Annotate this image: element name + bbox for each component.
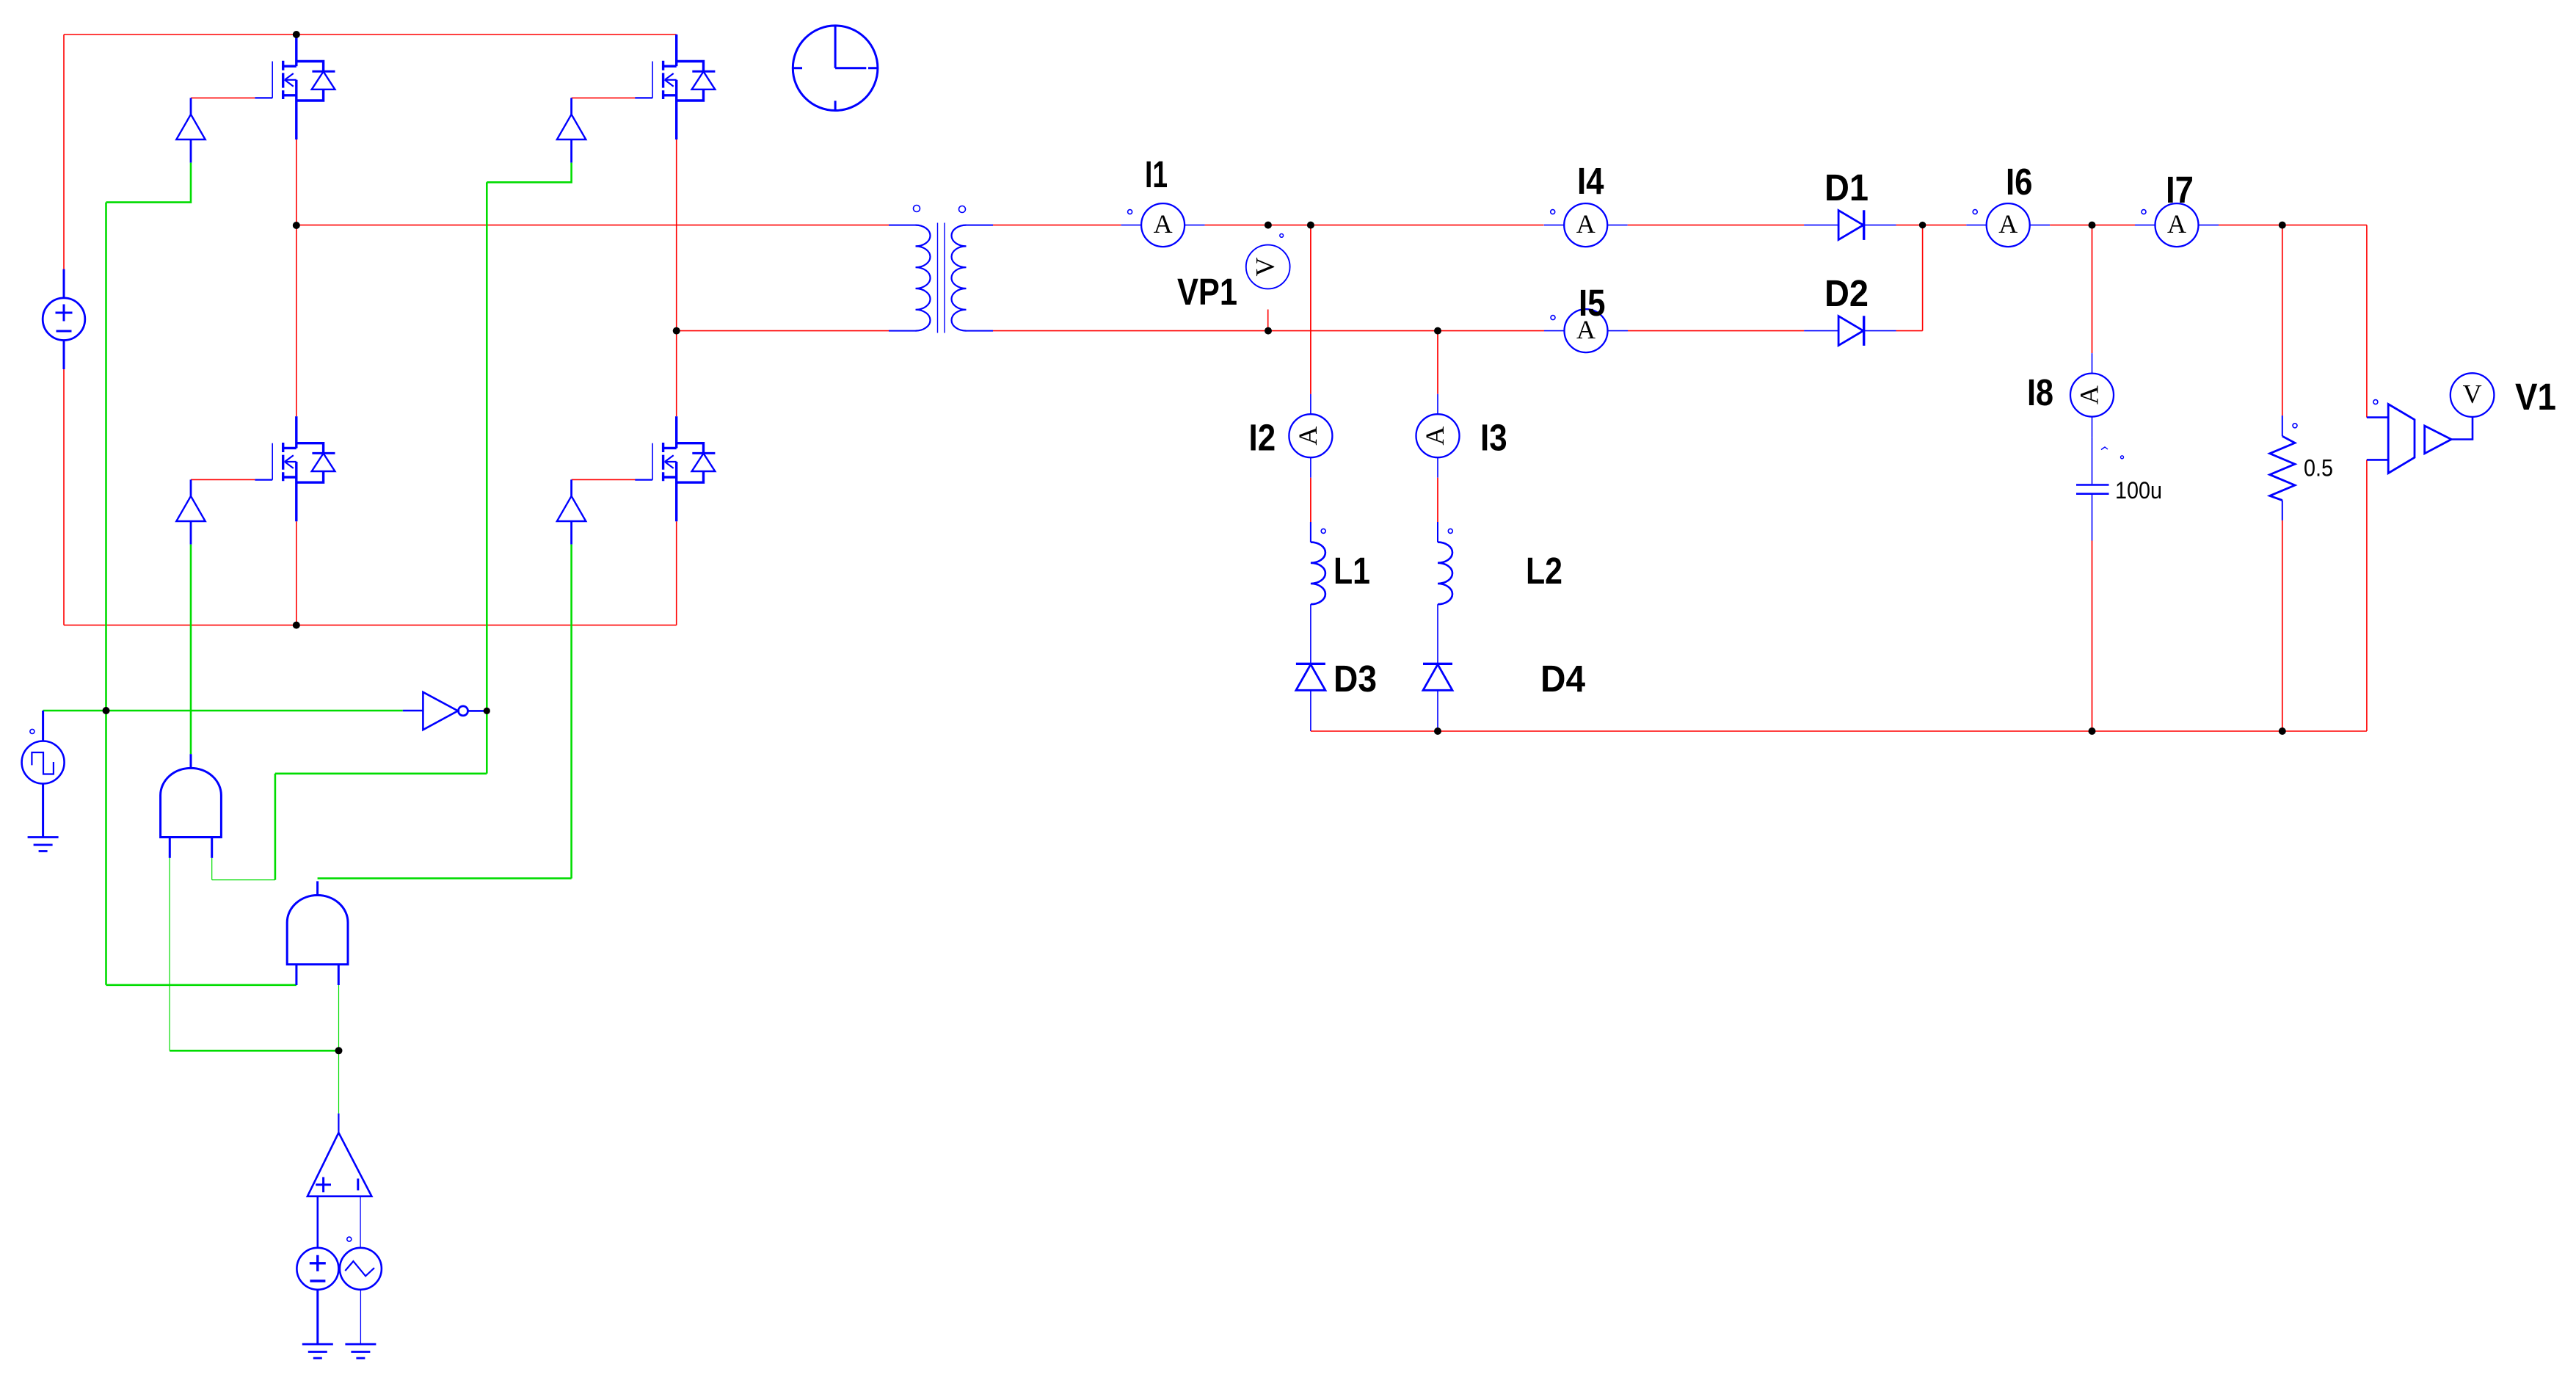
junction resistor branch node G: [2279, 222, 2286, 229]
junction clock node: [103, 707, 110, 714]
svg-text:A: A: [1998, 209, 2017, 239]
junction node B: [673, 327, 680, 335]
wire clock vertical bus: [105, 203, 107, 985]
wire L1 to D3: [1310, 604, 1311, 664]
wire AND2 right input vertical: [338, 985, 340, 1051]
wire U3 buffer output to Q3 gate: [191, 479, 255, 480]
ground GND2: [302, 1344, 333, 1358]
diode D4: [1423, 664, 1452, 690]
wire Q2 source to node B: [676, 139, 677, 331]
wire I1 to node C: [1205, 225, 1544, 226]
svg-text:0.5: 0.5: [2304, 455, 2333, 482]
wire I2 to L1: [1310, 478, 1311, 522]
triangle-wave source V4 (ramp): [340, 1237, 382, 1344]
svg-text:D3: D3: [1334, 658, 1377, 700]
svg-text:100u: 100u: [2115, 477, 2162, 504]
gate driver buffer U4: [557, 479, 586, 544]
ammeter I5: [1544, 309, 1628, 352]
AND gate U6: [161, 754, 222, 858]
diode D3: [1296, 664, 1325, 690]
wire NOT output vertical: [486, 182, 488, 774]
junction capacitor branch node F: [2089, 222, 2096, 229]
wire clock bus to AND2 left input: [106, 984, 296, 987]
svg-text:D2: D2: [1824, 272, 1869, 314]
wire I4 to D1: [1628, 225, 1804, 226]
wire D2 cathode up to node E: [1896, 225, 1923, 331]
junction I2 branch node C: [1307, 222, 1314, 229]
wire Q1 source to node A: [296, 139, 297, 225]
wire NOT output to U2 buffer input: [487, 163, 571, 183]
svg-text:I8: I8: [2027, 371, 2053, 413]
wire left rail upper (V2 to top rail): [63, 35, 65, 269]
capacitor C1 lead top: [2092, 437, 2093, 484]
wire U1 buffer output to Q1 gate: [191, 97, 255, 98]
wire L2 lead top: [1437, 522, 1438, 542]
wire Q3 source to bottom rail: [296, 521, 297, 625]
wire capacitor C1 bottom lead: [2092, 495, 2093, 541]
wire I6 to node F: [2050, 225, 2092, 226]
wire D4 anode to ground rail: [1437, 690, 1438, 731]
voltmeter VP1: [1246, 234, 1290, 289]
gate driver buffer U1: [176, 98, 205, 162]
wire AND2 right input stub: [338, 965, 340, 985]
AND gate U7: [287, 881, 348, 985]
svg-text:I2: I2: [1249, 417, 1276, 459]
comparator U8 (PWM): [308, 1114, 372, 1248]
wire node B to transformer primary bottom: [677, 330, 889, 332]
wire AND1 right input horizontal: [212, 879, 275, 881]
wire comparator output vertical: [338, 1050, 340, 1113]
voltage probe E1 differential: [2367, 400, 2473, 473]
ammeter I1: [1121, 203, 1205, 247]
junction VP1 bottom node: [1265, 327, 1272, 335]
ammeter I6: [1966, 203, 2050, 247]
transistor Q4 (NMOS with body diode): [635, 416, 715, 521]
junction VP1 top node: [1265, 222, 1272, 229]
transistor Q3 (NMOS with body diode): [255, 416, 335, 521]
transformer TX1 core: [938, 223, 945, 333]
wire AND2 output to U4 buffer input: [570, 545, 572, 879]
diode D2: [1804, 316, 1896, 346]
wire L1 lead top: [1310, 522, 1311, 542]
ammeter I7: [2135, 203, 2219, 247]
inductor L1: [1311, 529, 1325, 604]
transformer TX1 secondary phase dot: [959, 206, 966, 213]
wire I3 to L2: [1437, 478, 1438, 522]
inductor L2: [1438, 529, 1452, 604]
wire node D to I3 branch: [1437, 331, 1438, 394]
svg-text:A: A: [2075, 385, 2104, 404]
junction NOT output node: [484, 708, 490, 714]
svg-text:I4: I4: [1577, 160, 1604, 202]
wire NOT output zigzag to AND1 right input: [275, 773, 487, 775]
transformer TX1 primary winding: [889, 225, 931, 331]
wire top rail V2+ to bridge: [64, 34, 677, 35]
wire node F to I7: [2092, 225, 2136, 226]
resistor R1 load: [2270, 415, 2297, 520]
svg-text:L2: L2: [1526, 550, 1562, 592]
wire D3 anode to ground rail: [1310, 690, 1311, 731]
svg-text:VP1: VP1: [1177, 271, 1237, 313]
junction capacitor ground rail: [2089, 727, 2096, 735]
wire VP1 bottom lead: [1267, 310, 1269, 331]
wire L2 to D4: [1437, 604, 1438, 664]
wire node B to Q4 drain: [676, 331, 677, 417]
clock annotation symbol: [793, 26, 878, 111]
junction resistor ground rail: [2279, 727, 2286, 735]
transistor Q1 (NMOS with body diode): [255, 35, 335, 139]
svg-text:V: V: [1251, 258, 1280, 277]
junction comparator output node: [335, 1047, 343, 1054]
wire clock source to NOT input: [43, 710, 403, 712]
voltage source V2 (input DC): [43, 269, 85, 369]
wire node E to I6: [1923, 225, 1967, 226]
transistor Q2 (NMOS with body diode): [635, 35, 715, 139]
wire capacitor to ground rail: [2092, 541, 2093, 732]
ground GND1: [28, 838, 59, 852]
wire R1 to ground rail: [2282, 520, 2283, 731]
diode D1: [1804, 210, 1896, 240]
square-wave clock source V5: [22, 711, 65, 838]
gate driver buffer U3: [176, 479, 205, 544]
wire AND2 left input stub: [296, 965, 298, 985]
voltmeter V1: [2451, 373, 2495, 417]
svg-text:I6: I6: [2006, 161, 2033, 203]
svg-text:D1: D1: [1824, 167, 1869, 208]
ammeter I3: [1416, 394, 1460, 478]
wire I5 to D2: [1628, 330, 1804, 332]
wire left rail lower (V2 to bottom rail): [63, 369, 65, 625]
NOT gate U5 (inverter): [403, 692, 487, 730]
wire AND1 left input vertical: [169, 858, 170, 1051]
wire Q4 source to bottom rail: [676, 521, 677, 625]
svg-text:D4: D4: [1540, 658, 1586, 700]
wire U2 buffer output to Q2 gate: [572, 97, 636, 98]
svg-text:I5: I5: [1579, 282, 1606, 324]
junction D4 ground rail: [1434, 727, 1441, 735]
junction node A: [293, 222, 300, 229]
voltage source V3 (DC reference): [296, 1248, 338, 1344]
transformer TX1 primary phase dot: [914, 206, 920, 212]
wire node A to Q3 drain: [296, 225, 297, 416]
transformer TX1 secondary winding: [952, 225, 993, 331]
ammeter I4: [1544, 203, 1628, 247]
gate driver buffer U2: [557, 98, 586, 162]
wire AND2 output horizontal: [318, 877, 572, 879]
wire bottom rail: [64, 625, 677, 626]
svg-text:A: A: [1293, 426, 1322, 446]
wire U4 buffer output to Q4 gate: [572, 479, 636, 480]
wire output corner down to probe + input: [2366, 225, 2368, 418]
svg-text:A: A: [1420, 426, 1449, 446]
junction rectifier output node E: [1919, 222, 1926, 228]
junction top rail / Q1 drain: [293, 31, 300, 38]
wire output ground rail: [1311, 730, 2367, 732]
wire I7 to node G: [2219, 225, 2282, 226]
wire output corner up to probe - input: [2366, 460, 2368, 731]
wire comparator node horizontal: [170, 1050, 338, 1052]
wire node F to I8: [2092, 225, 2093, 353]
svg-text:V: V: [2463, 380, 2482, 409]
ammeter I8: [2070, 353, 2114, 437]
svg-text:L1: L1: [1334, 550, 1370, 592]
svg-text:V1: V1: [2515, 376, 2556, 418]
wire node A to transformer primary top: [296, 225, 889, 226]
wire clock node to U1 buffer input: [106, 163, 192, 203]
svg-text:I1: I1: [1145, 153, 1168, 195]
svg-text:I7: I7: [2166, 169, 2194, 211]
svg-text:I3: I3: [1480, 417, 1507, 459]
wire node C to I2 branch: [1310, 225, 1311, 394]
ground GND3: [345, 1344, 376, 1358]
svg-text:A: A: [1576, 209, 1596, 239]
wire transformer secondary top to I1: [993, 225, 1121, 226]
svg-text:A: A: [2167, 209, 2186, 239]
wire transformer secondary bottom to node D: [993, 330, 1544, 332]
junction I3 branch node D: [1434, 327, 1441, 335]
wire AND1 output to U3 buffer input: [190, 545, 192, 755]
ammeter I2: [1289, 394, 1332, 478]
capacitor C1: [2076, 447, 2124, 494]
wire node G to output corner: [2282, 225, 2367, 226]
wire D1 cathode to node E: [1896, 225, 1923, 226]
svg-text:A: A: [1154, 209, 1173, 239]
wire node G to R1: [2282, 225, 2283, 415]
junction bottom rail / Q3 source: [293, 622, 300, 629]
wire AND1 right input stub: [211, 858, 213, 880]
